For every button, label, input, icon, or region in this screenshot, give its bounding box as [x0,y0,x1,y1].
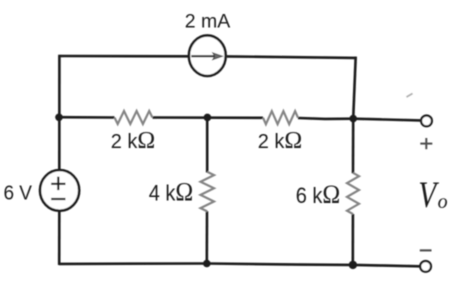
wire right vertical mid [352,119,355,174]
output terminal top [421,116,432,127]
resistor R4 6k zigzag [347,173,359,214]
voltage source V1 circle [40,170,79,211]
node A junction dot [55,114,63,122]
resistor R2 2k zigzag [263,111,298,124]
wire middle vertical upper [206,117,209,172]
wire bottom horizontal [59,264,420,267]
output plus sign [420,138,432,149]
wire middle vertical lower [206,211,209,263]
node D junction dot [203,260,211,268]
wire between resistors [153,116,264,119]
wire left vertical lower [58,211,61,265]
output minus sign [420,249,432,251]
wire right of 2k resistor [298,117,353,121]
node C junction dot [349,115,357,123]
svg-text:6 kΩ: 6 kΩ [296,179,341,210]
wire right vertical lower [351,214,354,265]
svg-text:6 V: 6 V [3,182,32,205]
svg-text:2 kΩ: 2 kΩ [111,128,156,154]
wire top-left horizontal [59,55,188,58]
svg-text:V: V [418,176,439,216]
voltage source V1 plus sign [51,177,65,190]
scan artifact mark [407,94,413,98]
current source I1 arrow [191,53,222,60]
wire right vertical upper [353,57,356,119]
node E junction dot [349,261,357,269]
svg-text:4 kΩ: 4 kΩ [149,179,194,207]
resistor R3 4k zigzag [201,172,215,212]
wire top-right horizontal [227,56,356,58]
svg-text:o: o [438,191,448,213]
voltage source V1 minus sign [51,198,65,200]
svg-text:2 kΩ: 2 kΩ [258,128,303,154]
svg-text:2 mA: 2 mA [185,10,231,32]
wire middle horizontal [58,116,115,119]
current source I1 circle [189,35,226,76]
node B junction dot [204,114,212,122]
wire left vertical [58,55,61,171]
output terminal bottom [420,261,431,272]
wire node to output top terminal [353,119,420,121]
resistor R1 2k zigzag [115,111,153,124]
